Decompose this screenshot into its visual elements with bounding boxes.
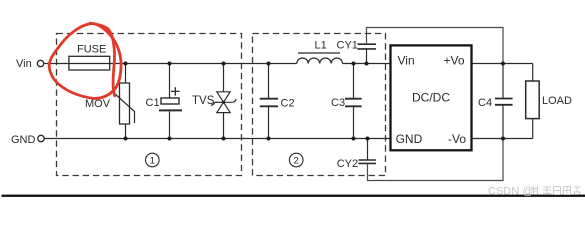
capacitor C1 polarity plus: [171, 87, 180, 95]
wire +Vo rail: [472, 63, 533, 65]
wire LOAD upper lead: [532, 64, 534, 82]
diode TVS top triangle: [217, 92, 230, 102]
svg-text:2: 2: [294, 156, 299, 167]
wire MOV branch top: [125, 64, 127, 84]
junction dots bottom rail: [124, 137, 370, 141]
svg-text:C4: C4: [478, 97, 492, 109]
wire TVS branch bottom: [223, 113, 225, 139]
junction dots top rail: [124, 62, 369, 66]
watermark CJK glyph blocks: [532, 186, 581, 195]
wire C2 branch bottom: [268, 106, 270, 138]
capacitor C1 bottom plate: [159, 109, 182, 111]
capacitor C2 bottom plate: [260, 105, 278, 107]
capacitor CY1 lower lead: [366, 49, 368, 64]
svg-text:-Vo: -Vo: [448, 132, 466, 146]
wire TVS branch top: [223, 64, 225, 93]
wire C1 branch top: [169, 64, 171, 99]
svg-text:DC/DC: DC/DC: [412, 91, 450, 105]
svg-text:+Vo: +Vo: [443, 53, 464, 67]
wire bottom rail: [44, 138, 390, 140]
wire C3 branch bottom: [353, 106, 355, 138]
svg-text:1: 1: [150, 156, 155, 167]
wire C1 branch bottom: [169, 111, 171, 138]
svg-text:CSDN @: CSDN @: [488, 185, 533, 197]
wire C3 branch top: [353, 64, 355, 99]
fuse F1 body: [69, 56, 110, 70]
red annotation tail: [90, 23, 115, 96]
svg-text:C1: C1: [146, 97, 160, 109]
svg-text:GND: GND: [396, 132, 423, 146]
svg-text:FUSE: FUSE: [77, 44, 106, 56]
capacitor C3 top plate: [345, 98, 362, 100]
diode TVS bottom triangle: [217, 102, 230, 112]
svg-text:LOAD: LOAD: [542, 95, 572, 107]
wire top rail left: [44, 63, 297, 65]
wire MOV branch bottom: [125, 124, 127, 139]
junction dots output rails: [501, 62, 505, 66]
svg-text:TVS: TVS: [192, 95, 215, 107]
varistor MOV diagonal: [114, 93, 135, 123]
wire C2 branch top: [268, 64, 270, 99]
circled number 2: [289, 153, 303, 167]
wire LOAD lower lead: [532, 119, 534, 139]
wire top rail right: [343, 63, 391, 65]
wire C4 lower lead: [502, 105, 504, 139]
svg-text:CY2: CY2: [337, 158, 358, 170]
inductor L1 winding: [297, 58, 343, 63]
capacitor C4 plates: [495, 98, 513, 100]
bottom separator line: [2, 195, 585, 197]
capacitor C1 top plate: [161, 98, 179, 104]
circled number 1: [146, 153, 160, 167]
wire CY2 upper lead: [367, 139, 369, 161]
wire CY1 upper lead and chassis loop top: [367, 28, 504, 64]
svg-text:C3: C3: [331, 97, 345, 109]
svg-text:Vin: Vin: [398, 53, 415, 67]
converter U1 DC/DC box: [391, 45, 472, 150]
wire C4 upper lead: [502, 64, 504, 99]
node GND terminal: [38, 135, 44, 141]
dashed box section 2: [253, 34, 386, 176]
capacitor C2 top plate: [260, 98, 278, 100]
dashed box section 1: [57, 34, 242, 176]
wire -Vo rail: [472, 138, 533, 140]
diode TVS gate bar: [211, 99, 236, 105]
capacitor CY2 plates: [359, 159, 377, 161]
svg-text:L1: L1: [315, 39, 327, 51]
svg-text:CY1: CY1: [337, 39, 358, 51]
resistor LOAD body: [526, 81, 540, 119]
wire CY2 lower lead and chassis loop bottom: [368, 139, 504, 181]
node Vin terminal: [37, 60, 43, 66]
node TVS center: [222, 101, 225, 104]
varistor MOV body: [120, 83, 130, 124]
capacitor C3 bottom plate: [345, 105, 362, 107]
inductor L1 core bar: [298, 52, 340, 54]
svg-text:C2: C2: [281, 98, 295, 110]
svg-text:GND: GND: [11, 134, 36, 146]
svg-text:MOV: MOV: [85, 98, 111, 110]
svg-text:Vin: Vin: [16, 58, 32, 70]
capacitor CY1 plates: [358, 48, 377, 50]
red annotation circle around fuse: [49, 24, 121, 99]
